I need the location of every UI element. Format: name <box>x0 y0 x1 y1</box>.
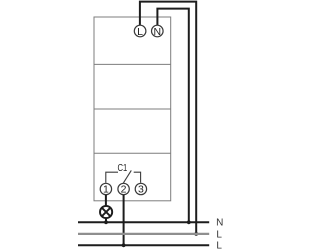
lamp E1 <box>100 206 112 218</box>
device outline U1 <box>94 17 171 201</box>
wire terminal 2 to bottom L bus <box>123 195 125 246</box>
device section divider 1 <box>94 63 171 65</box>
svg-text:L: L <box>216 241 222 250</box>
wire lamp to N bus <box>105 218 107 222</box>
svg-text:C1: C1 <box>118 162 128 174</box>
contact lead terminal 3 <box>134 172 141 183</box>
L bus line middle <box>78 233 209 235</box>
terminal 1 <box>100 183 111 194</box>
terminal L <box>134 25 146 37</box>
svg-text:3: 3 <box>138 184 144 196</box>
contact blade from terminal 2 <box>123 170 131 183</box>
device section divider 2 <box>94 108 171 110</box>
wire from terminal L up over to L bus <box>140 2 196 234</box>
L bus line bottom <box>78 244 209 246</box>
wire terminal 1 to lamp <box>105 195 107 206</box>
svg-text:2: 2 <box>121 184 127 196</box>
svg-text:L: L <box>216 229 222 240</box>
junction dot terminal 2 wire on bottom L bus <box>122 243 126 247</box>
svg-text:L: L <box>137 26 143 38</box>
terminal N <box>152 25 164 37</box>
svg-text:1: 1 <box>103 184 109 196</box>
junction dot wire N on N bus <box>187 220 191 224</box>
svg-text:N: N <box>154 26 162 38</box>
junction dot lamp on N bus <box>104 220 108 224</box>
contact lead terminal 1 <box>106 172 118 183</box>
N bus line <box>78 221 209 223</box>
terminal 2 <box>118 183 129 194</box>
junction dot wire L on L bus <box>194 232 198 236</box>
device section divider 3 <box>94 152 171 154</box>
wire from terminal N up over to N bus <box>157 9 188 223</box>
svg-text:N: N <box>216 218 223 229</box>
terminal 3 <box>135 183 146 194</box>
